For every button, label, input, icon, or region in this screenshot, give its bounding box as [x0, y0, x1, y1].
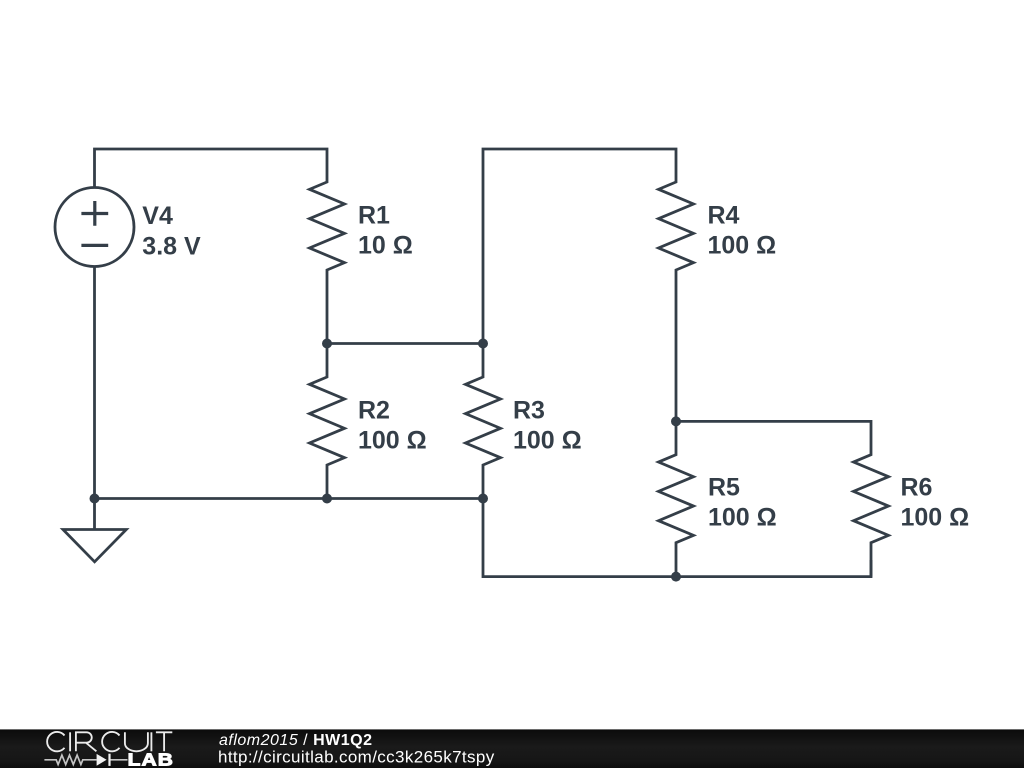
svg-text:R2: R2	[358, 396, 390, 424]
svg-text:LAB: LAB	[128, 751, 174, 768]
svg-text:100 Ω: 100 Ω	[358, 426, 427, 454]
svg-text:R1: R1	[358, 201, 390, 229]
svg-text:R3: R3	[513, 396, 545, 424]
svg-text:100 Ω: 100 Ω	[708, 232, 777, 260]
svg-text:10 Ω: 10 Ω	[358, 232, 413, 260]
svg-text:aflom2015 / HW1Q2: aflom2015 / HW1Q2	[219, 732, 372, 749]
svg-text:100 Ω: 100 Ω	[901, 503, 970, 531]
svg-text:R5: R5	[708, 473, 740, 501]
svg-text:100 Ω: 100 Ω	[708, 503, 777, 531]
svg-text:3.8 V: 3.8 V	[142, 232, 201, 260]
svg-text:http://circuitlab.com/cc3k265k: http://circuitlab.com/cc3k265k7tspy	[218, 748, 495, 767]
svg-text:100 Ω: 100 Ω	[513, 426, 582, 454]
svg-text:V4: V4	[142, 202, 173, 230]
svg-text:R6: R6	[901, 473, 933, 501]
svg-text:R4: R4	[708, 201, 740, 229]
